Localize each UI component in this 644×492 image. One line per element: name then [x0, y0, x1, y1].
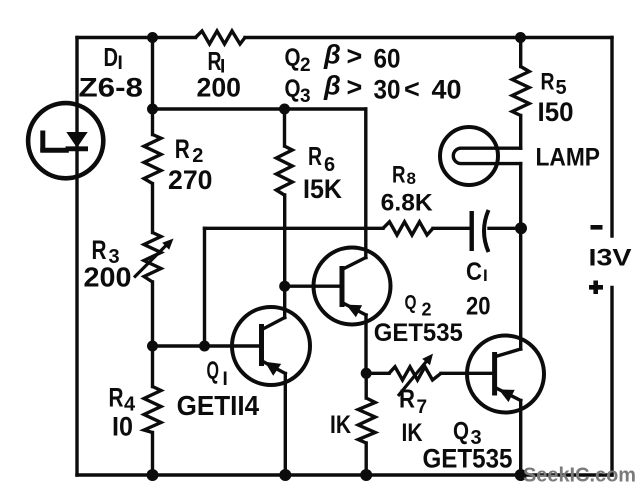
svg-text:Q: Q [285, 75, 301, 103]
svg-text:I: I [118, 53, 123, 74]
svg-text:LAMP: LAMP [536, 144, 601, 172]
svg-text:270: 270 [168, 165, 213, 195]
svg-text:IK: IK [330, 411, 351, 439]
svg-text:GETII4: GETII4 [177, 390, 260, 421]
svg-text:6: 6 [324, 154, 335, 176]
svg-text:2: 2 [192, 145, 203, 167]
resistor R3 variable [144, 233, 161, 283]
wire R5 top lead [519, 38, 522, 67]
svg-text:Q: Q [207, 357, 220, 385]
node R7 junction [361, 368, 372, 379]
wire x152 upper [151, 38, 154, 135]
capacitor C1 [470, 211, 474, 251]
node top of R2 branch [147, 32, 158, 43]
wire Q2 emitter down [364, 315, 367, 373]
node bottom rail Q1 emitter [279, 469, 291, 481]
node base wire junction [199, 341, 210, 352]
svg-text:R: R [308, 141, 322, 171]
svg-text:R: R [541, 69, 555, 96]
node bottom rail Q3 emitter [515, 469, 527, 481]
battery minus sign [591, 225, 603, 230]
node Q2 base / Q1 collector [279, 281, 290, 292]
svg-text:I50: I50 [538, 97, 574, 127]
wire Q2 base [285, 285, 342, 288]
svg-text:Q: Q [285, 44, 301, 72]
wire lamp to Q3 collector [519, 164, 522, 349]
svg-text:<: < [404, 74, 420, 104]
svg-text:Q: Q [405, 292, 417, 314]
svg-text:>: > [347, 41, 363, 71]
wire left rail [75, 38, 78, 476]
resistor R1 [196, 31, 246, 44]
wire bottom rail [77, 473, 612, 476]
wire x152 mid2 [151, 282, 154, 387]
svg-text:IK: IK [402, 419, 423, 447]
node C1 lamp junction [515, 222, 527, 234]
svg-text:I: I [483, 266, 488, 285]
svg-text:3: 3 [300, 86, 311, 107]
node R6 top [279, 104, 290, 115]
wire R7 left stub [366, 372, 389, 375]
svg-text:7: 7 [417, 397, 428, 418]
wire R6 bottom lead to Q1 collector [283, 195, 286, 318]
wire Q1 base [153, 344, 262, 347]
resistor R5 [512, 67, 529, 116]
wire top rail left [77, 36, 196, 39]
battery plus sign [589, 281, 603, 295]
wire R8 right lead [433, 227, 470, 230]
svg-text:>: > [347, 72, 363, 102]
diode D1 zener in circle [28, 103, 103, 178]
svg-text:2: 2 [422, 300, 432, 320]
wire R6 top lead [283, 109, 286, 146]
node bottom rail 1K [360, 469, 372, 481]
transistor Q1 [232, 307, 310, 385]
svg-text:Q: Q [453, 418, 469, 446]
svg-text:β: β [323, 40, 341, 70]
transistor Q3 [467, 336, 544, 413]
wire R7 right lead to Q3 base [441, 372, 495, 375]
wire y109 [153, 107, 366, 110]
svg-text:GET535: GET535 [423, 444, 513, 474]
resistor R7 variable [389, 367, 441, 380]
svg-text:8: 8 [407, 169, 416, 188]
svg-text:60: 60 [374, 44, 401, 74]
resistor R2 [144, 135, 161, 184]
svg-text:200: 200 [84, 262, 132, 293]
resistor R4 [144, 387, 161, 433]
node Q1 base branch [147, 341, 158, 352]
node R2 top [147, 104, 158, 115]
wire Q1 emitter down [284, 374, 287, 476]
svg-text:R: R [175, 134, 190, 164]
svg-text:20: 20 [466, 293, 491, 321]
resistor R8 [383, 222, 433, 235]
svg-text:R: R [109, 383, 124, 413]
svg-text:I: I [223, 369, 228, 390]
svg-text:2: 2 [300, 55, 311, 76]
svg-text:5: 5 [556, 77, 567, 99]
wire x204 down to Q1 base wire [203, 228, 206, 346]
lamp [440, 127, 498, 185]
wire R5 bottom lead [519, 116, 522, 149]
svg-text:R: R [392, 162, 406, 189]
wire x365 corner from y109 to Q2 collector [364, 109, 367, 258]
wire x152 mid1 [151, 184, 154, 233]
wire R8 row [205, 227, 384, 230]
svg-text:I3V: I3V [589, 245, 632, 272]
svg-text:I5K: I5K [303, 174, 342, 204]
wire C1 right lead [489, 227, 521, 230]
wire right rail lower [610, 288, 613, 476]
label beta line 2 [285, 71, 462, 108]
wire x152 lower [151, 433, 154, 476]
node bottom rail R4 [147, 469, 159, 481]
svg-text:C: C [466, 258, 482, 286]
arrow of R3 [134, 245, 167, 278]
transistor Q2 [314, 248, 391, 325]
svg-text:40: 40 [432, 75, 462, 105]
wire top rail right [245, 36, 612, 39]
wire Q3 emitter down [519, 401, 522, 476]
wire 1K bottom lead [365, 443, 368, 475]
svg-text:Z6-8: Z6-8 [79, 73, 144, 103]
svg-text:R: R [92, 235, 107, 265]
svg-text:6.8K: 6.8K [381, 190, 434, 217]
node R5 top [515, 32, 526, 43]
svg-text:R: R [399, 384, 415, 414]
svg-text:30: 30 [374, 75, 401, 105]
wire 1K top lead [365, 373, 368, 398]
svg-text:D: D [104, 42, 119, 72]
svg-text:200: 200 [197, 73, 242, 103]
svg-text:I0: I0 [112, 412, 133, 442]
wire right rail upper [610, 38, 613, 237]
arrow of R7 [398, 361, 427, 396]
svg-text:SeekIC.com: SeekIC.com [523, 464, 636, 487]
svg-text:GET535: GET535 [374, 319, 463, 347]
resistor 1K vertical [358, 398, 375, 443]
svg-text:β: β [323, 71, 341, 101]
label beta line 1 [285, 40, 401, 77]
resistor R6 [276, 146, 292, 195]
